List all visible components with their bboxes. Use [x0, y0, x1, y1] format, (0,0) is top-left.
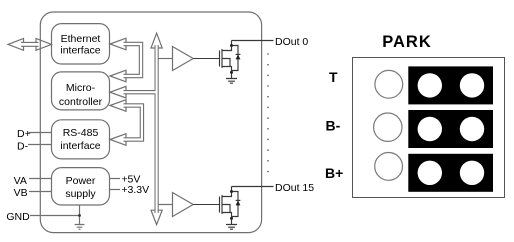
- svg-text:controller: controller: [59, 96, 103, 108]
- svg-text:interface: interface: [60, 44, 100, 56]
- svg-text:T: T: [329, 69, 338, 85]
- svg-text:RS-485: RS-485: [63, 127, 99, 139]
- svg-text:DOut 0: DOut 0: [275, 36, 308, 48]
- svg-text:B-: B-: [326, 118, 341, 134]
- svg-text:B+: B+: [325, 165, 343, 181]
- svg-text:+3.3V: +3.3V: [121, 184, 149, 196]
- svg-text:D+: D+: [17, 128, 31, 140]
- svg-text:VB: VB: [14, 187, 28, 199]
- svg-text:DOut 15: DOut 15: [275, 182, 314, 194]
- svg-text:D-: D-: [17, 140, 29, 152]
- svg-text:VA: VA: [14, 175, 27, 187]
- svg-text:PARK: PARK: [382, 33, 432, 51]
- svg-text:Ethernet: Ethernet: [61, 33, 101, 45]
- svg-text:GND: GND: [6, 211, 30, 223]
- svg-text:Power: Power: [66, 175, 96, 187]
- svg-text:Micro-: Micro-: [66, 82, 96, 94]
- svg-text:interface: interface: [60, 140, 100, 152]
- svg-text:supply: supply: [65, 188, 96, 200]
